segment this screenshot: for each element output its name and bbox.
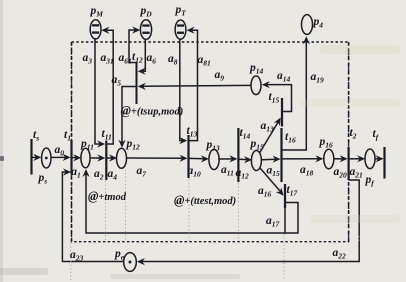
svg-text:@+tmod: @+tmod: [88, 189, 127, 203]
arc a_23 : p_c to t_1: [62, 168, 123, 261]
transition t_15: [281, 98, 283, 127]
arc a_6 : p_D to t_12: [138, 39, 146, 75]
arc a_14 : t_15 to p_14: [262, 81, 292, 111]
transition t_14: [237, 128, 239, 182]
place p_c: [124, 253, 137, 272]
place p_14: [251, 76, 261, 95]
arc a_11 : p_13 to t_14: [218, 155, 237, 162]
arc a_7 : p_12 to t_13: [127, 155, 188, 162]
transition t_f: [383, 147, 385, 179]
faint projection dotted lines: [71, 166, 359, 280]
arc a_22 : t_2 to p_c: [137, 180, 359, 265]
arc a_8 : p_T to t_13: [179, 39, 187, 144]
transition t_11: [105, 141, 107, 181]
arc a_17 : t_17 to p_11: [82, 169, 298, 233]
arc t_s to p_s: [33, 154, 42, 161]
arc a_12 : t_14 to p_15: [239, 156, 252, 163]
transition t_16: [280, 128, 282, 182]
place p_f: [365, 149, 375, 169]
place p_13: [209, 149, 219, 169]
arc a_81 : t_13 to p_T: [187, 27, 198, 141]
place p_M: [90, 20, 101, 39]
dashed subsystem boundary: [72, 42, 349, 242]
transition t_17: [284, 184, 286, 233]
place p_T: [175, 20, 186, 39]
place p_16: [324, 149, 334, 169]
arc a_4 : t_11 to p_12: [107, 154, 117, 161]
arc a_31 : t_11 to p_M: [101, 27, 113, 144]
arc a_61 : t_12 to p_D: [129, 26, 140, 62]
transition t_1: [70, 140, 72, 175]
arc a_13 : p_15 to t_15: [260, 118, 281, 153]
place p_4: [302, 15, 313, 35]
place p_12: [117, 148, 127, 168]
svg-text:@+(tsup,mod): @+(tsup,mod): [121, 104, 184, 118]
place p_D: [140, 20, 151, 40]
transition t_2: [348, 147, 350, 180]
arc a_2 : p_11 to t_11: [91, 154, 106, 161]
svg-text:@+(ttest,mod): @+(ttest,mod): [174, 193, 236, 207]
transition t_s: [30, 139, 32, 175]
place p_15: [251, 151, 261, 171]
arc p_f to t_f: [375, 155, 384, 162]
arc a_9 : p_14 to t_12: [138, 83, 251, 90]
arc a_1 : t_1 to p_11: [73, 154, 82, 161]
arc a_19 : t_16 to p_4: [283, 36, 310, 150]
arc a_15 : p_15 to t_16: [262, 156, 281, 163]
transition t_12: [136, 62, 138, 104]
arc a_20 : p_16 to t_2: [334, 155, 348, 162]
arc a_21 : t_2 to p_f: [350, 155, 366, 162]
arc a_3 : p_M to t_11: [95, 39, 105, 148]
arc a_18 : t_16 to p_16: [283, 155, 324, 162]
arc a_10 : t_13 to p_13: [190, 155, 209, 162]
arc a_0 : p_s to t_1: [51, 154, 71, 161]
place p_s: [42, 148, 51, 168]
place p_11: [81, 148, 90, 168]
arc a_5 : t_12 to p_12: [118, 87, 136, 148]
arc a_16 : p_15 to t_17: [260, 168, 284, 196]
transition t_13: [187, 135, 189, 178]
